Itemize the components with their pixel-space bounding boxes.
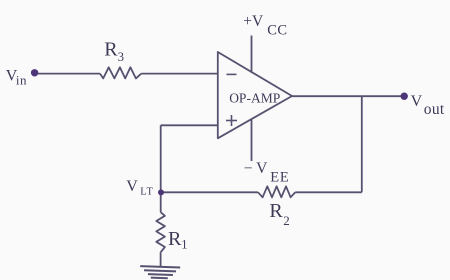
svg-text:R: R — [104, 38, 118, 60]
svg-text:LT: LT — [140, 187, 153, 198]
svg-text:CC: CC — [267, 23, 287, 39]
svg-text:2: 2 — [283, 213, 290, 228]
svg-text:out: out — [424, 101, 445, 118]
svg-text:V: V — [411, 93, 423, 110]
svg-text:R: R — [269, 200, 283, 222]
svg-text:R: R — [168, 228, 182, 250]
svg-text:+V: +V — [243, 13, 264, 30]
svg-text:EE: EE — [270, 170, 289, 186]
svg-text:1: 1 — [181, 238, 187, 252]
svg-text:3: 3 — [118, 50, 124, 64]
svg-text:V: V — [126, 178, 138, 195]
svg-text:OP-AMP: OP-AMP — [229, 91, 280, 106]
svg-text:− V: − V — [244, 160, 268, 177]
svg-text:in: in — [16, 72, 27, 87]
